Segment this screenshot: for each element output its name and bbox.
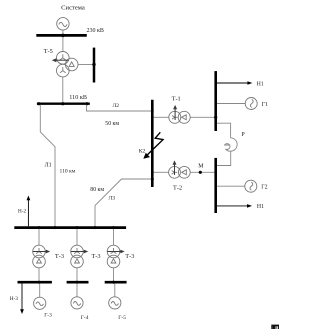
- svg-text:Н1: Н1: [257, 81, 264, 87]
- line L3 (80 km): [95, 179, 151, 226]
- tap arrow T-3 no.3: [107, 250, 124, 254]
- svg-text:110 кВ: 110 кВ: [69, 94, 87, 101]
- load Н-2 arrow: [27, 196, 31, 227]
- generator Г-5: [109, 297, 121, 309]
- line L1 (110 km): [40, 105, 55, 227]
- wire upper bus to reactor P: [217, 123, 231, 138]
- transformer T-2: [169, 166, 191, 178]
- wire to generator G2: [217, 185, 245, 187]
- busbar generator bus seg1: [18, 281, 52, 284]
- busbar generator bus seg3: [105, 281, 127, 284]
- svg-text:К2: К2: [139, 148, 146, 154]
- load Н-3 arrow: [20, 283, 24, 314]
- junction dot tertiary bus: [92, 63, 95, 66]
- wire to generator Г-4: [76, 283, 78, 296]
- svg-text:Система: Система: [61, 4, 85, 11]
- generator Г-3: [34, 297, 46, 309]
- svg-text:110 км: 110 км: [60, 169, 76, 175]
- junction dot T-1 middle bus: [151, 116, 154, 119]
- svg-text:Л1: Л1: [45, 163, 52, 169]
- busbar right upper (G1): [214, 71, 217, 131]
- junction dot L2 middle bus: [151, 110, 154, 113]
- junction dot T-2 middle bus: [151, 171, 154, 174]
- svg-text:Т-3: Т-3: [91, 253, 100, 260]
- svg-text:Т-3: Т-3: [125, 253, 134, 260]
- svg-text:Г-5: Г-5: [118, 315, 126, 321]
- busbar 230 kV: [36, 34, 87, 37]
- svg-text:230 кВ: 230 кВ: [87, 28, 104, 34]
- svg-text:Н-2: Н-2: [18, 208, 26, 214]
- wire T-3 no.2 to lower bus: [76, 268, 78, 281]
- busbar tertiary generator bus: [93, 48, 96, 83]
- wire T-2 to M and lower bus: [190, 171, 214, 173]
- load H1 arrow upper: [217, 81, 252, 85]
- wire to generator Г-5: [114, 283, 116, 296]
- tap arrow T-5: [52, 58, 69, 62]
- generator Г1: [245, 98, 257, 110]
- transformer T-5 (three-winding): [57, 52, 78, 77]
- corner watermark mark: [271, 325, 279, 329]
- svg-text:Г2: Г2: [261, 185, 267, 191]
- wire 230kV bus to T-5: [62, 37, 64, 52]
- fault K2 lightning bolt: [143, 132, 163, 159]
- junction dots lower main bus: [38, 226, 116, 229]
- wire source to 230kV bus: [62, 30, 64, 35]
- svg-text:Т-2: Т-2: [173, 185, 182, 192]
- svg-text:М: М: [198, 164, 204, 170]
- node M dot: [199, 171, 202, 174]
- svg-text:80 км: 80 км: [90, 187, 104, 193]
- svg-text:Г-4: Г-4: [81, 315, 89, 321]
- wire to generator Г-3: [39, 283, 41, 297]
- load H1 arrow lower: [217, 204, 252, 208]
- busbar middle node: [151, 100, 154, 187]
- junction dot 110kV left end: [37, 102, 40, 105]
- wire middle bus to T-1: [154, 116, 169, 118]
- busbar right lower (G2): [214, 158, 217, 213]
- busbar 110 kV: [37, 102, 90, 104]
- wire T-3 no.3 to lower bus: [113, 268, 115, 281]
- junction dot 110kV T-5: [61, 102, 64, 105]
- wire middle bus to T-2: [154, 171, 169, 173]
- wire T-5 to 110kV bus: [62, 77, 64, 103]
- tap arrow T-1: [173, 105, 177, 120]
- generator Г2: [245, 180, 257, 192]
- transformer T-1: [169, 111, 190, 123]
- svg-text:Н1: Н1: [257, 204, 264, 210]
- svg-text:Л2: Л2: [113, 103, 120, 109]
- reactor P: [225, 138, 238, 151]
- wire bus to T-3 no.2: [76, 229, 78, 245]
- tap arrow T-3 no.2: [71, 250, 88, 254]
- wire reactor to lower bus: [217, 151, 231, 165]
- svg-text:Г1: Г1: [262, 102, 268, 108]
- svg-text:Г-3: Г-3: [44, 312, 52, 318]
- wire T-1 to right upper bus: [190, 116, 214, 118]
- transformer T-3 no.2: [71, 245, 84, 268]
- wire T-5 tertiary to generator busbar: [78, 64, 94, 66]
- junction dot 110kV right end: [85, 102, 88, 105]
- svg-text:50 км: 50 км: [105, 121, 119, 127]
- svg-text:Т-3: Т-3: [55, 253, 64, 260]
- svg-text:Т-1: Т-1: [172, 96, 181, 103]
- AC source system S: [57, 18, 69, 30]
- line L2 (50 km): [87, 105, 152, 111]
- generator Г-4: [71, 297, 83, 309]
- wire to generator G1: [217, 103, 245, 105]
- tap arrow T-3 no.1: [33, 250, 50, 254]
- junction dot source/bus: [61, 34, 65, 38]
- junction dot T-1 bus: [214, 116, 217, 119]
- wire bus to T-3 no.3: [113, 229, 115, 245]
- junction dots generator bus: [38, 281, 116, 284]
- wire bus to T-3 no.1: [38, 229, 40, 245]
- wire T-3 no.1 to lower bus: [38, 268, 40, 281]
- tap arrow T-2: [173, 160, 177, 175]
- svg-text:Н-3: Н-3: [10, 296, 18, 302]
- junction dot L3 middle bus: [151, 178, 154, 181]
- busbar generator bus seg2: [67, 281, 89, 284]
- busbar lower main (35kV): [14, 226, 126, 229]
- transformer T-3 no.3: [107, 245, 120, 268]
- svg-text:Т-5: Т-5: [44, 48, 53, 55]
- transformer T-3 no.1: [33, 245, 46, 268]
- svg-text:Л3: Л3: [109, 195, 116, 201]
